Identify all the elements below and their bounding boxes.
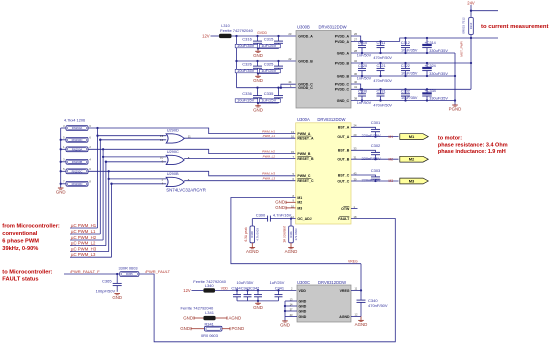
svg-text:Ferrite 742792040: Ferrite 742792040 [193,279,226,284]
svg-text:RN290B: RN290B [72,160,83,164]
svg-text:SN74LVC32ARGYR: SN74LVC32ARGYR [166,187,206,192]
wire BST M3 [351,175,376,177]
wire OC_ADJ [252,218,267,220]
svg-text:GND: GND [253,78,263,83]
svg-text:39kHz, 0-90%: 39kHz, 0-90% [2,246,38,252]
wire GVDD vertical bus [236,36,238,88]
svg-text:GND_A: GND_A [337,51,350,55]
wire GVDD rail C [237,84,297,88]
svg-text:1uF/25V: 1uF/25V [261,98,276,103]
svg-text:330uF/35V: 330uF/35V [429,97,448,101]
svg-text:PWM_H1: PWM_H1 [262,130,275,134]
ground U300C [282,320,288,322]
svg-text:PWM_H2: PWM_H2 [262,150,275,154]
wire U290C output to RESET_B [184,158,296,160]
wire PVDD_A pins join [351,36,361,42]
wire VREG net vertical [360,264,362,300]
capacitor C342 [257,289,259,291]
svg-text:U290B: U290B [167,171,179,176]
capacitor C343 [246,289,248,291]
svg-text:µC PWM_L2: µC PWM_L2 [71,240,96,245]
or-gate U290C SN74LVC32 [166,155,184,164]
svg-text:PWM_B: PWM_B [297,152,311,156]
svg-text:GND: GND [275,205,285,210]
svg-text:to Microcontroller:: to Microcontroller: [2,269,52,275]
wire M1 to VREG [231,198,361,264]
resistor R300 4.7k [250,226,255,243]
svg-text:/PWR_FAULT: /PWR_FAULT [145,269,170,274]
svg-text:220nF/25V: 220nF/25V [362,133,381,138]
svg-text:RN290A: RN290A [72,126,83,130]
svg-text:AGND: AGND [246,249,259,254]
svg-text:GND: GND [253,53,263,58]
capacitor C312 10uF/35V [404,37,406,39]
wire FAULT loop [139,219,395,342]
wire PWM_H3 to PWM_C [88,171,296,176]
svg-text:µC PWM_L3: µC PWM_L3 [71,252,96,257]
capacitor C320 1nF/50V [361,62,363,64]
svg-text:GND: GND [275,200,285,205]
svg-text:C365: C365 [102,278,112,283]
svg-text:38: 38 [354,96,358,100]
svg-text:28: 28 [354,49,358,53]
wire cap bottoms [258,48,279,50]
capacitor C315 1uF/25V [277,35,279,37]
svg-text:PGND: PGND [449,107,462,112]
svg-text:GVDD_C: GVDD_C [298,86,313,90]
svg-text:C302: C302 [371,143,381,148]
svg-text:BST_A: BST_A [338,126,350,130]
wire pullup common bus [60,128,62,188]
svg-text:phase inductance: 1.9 mH: phase inductance: 1.9 mH [438,149,506,155]
svg-text:µC PWM_H1: µC PWM_H1 [71,223,97,228]
wire bus µC PWM_L3 [111,184,113,257]
svg-text:BST_C: BST_C [338,173,350,177]
ground PGND [452,104,458,106]
svg-text:1uF/25V: 1uF/25V [261,43,276,48]
resistor RN290A pullup [61,148,66,150]
svg-text:470nF/50V: 470nF/50V [373,103,392,107]
ground port at M2 [286,201,296,203]
svg-text:RESET_C: RESET_C [297,179,314,183]
svg-text:AGND: AGND [285,249,298,254]
capacitor C300 4.7nF/16V [267,216,269,222]
svg-text:M2: M2 [389,157,394,161]
svg-text:GND_B: GND_B [337,74,350,78]
wire OUT to M2 [351,158,399,160]
capacitor C311 470nF/50V [379,40,381,42]
capacitor C341 1uF/25V [277,289,279,291]
svg-text:C332: C332 [401,90,410,94]
svg-text:GVDD_A: GVDD_A [298,34,313,38]
svg-text:4.7k 0603: 4.7k 0603 [255,228,259,241]
svg-text:23: 23 [288,32,292,36]
svg-text:PWM_H3: PWM_H3 [262,172,275,176]
capacitor C301 220nF/25V bootstrap [371,128,380,130]
wire to R301 [290,219,292,226]
svg-text:PVDD_B: PVDD_B [335,61,350,65]
wire U290D input 13 [98,135,167,137]
wire PWM_H2 to PWM_B [88,149,296,153]
wire 24V rail [400,38,498,42]
svg-text:M2: M2 [409,157,415,162]
wire OUT to M3 [351,180,399,182]
wire bus µC PWM_L2 [105,162,107,246]
svg-text:DRV8312DDW: DRV8312DDW [318,280,346,285]
svg-text:M3: M3 [389,179,394,183]
svg-text:M3: M3 [409,179,415,184]
capacitor C326 10uF/35V [256,60,258,62]
svg-text:R341: R341 [205,321,214,326]
resistor RN290C pullup [61,170,66,172]
svg-text:PVDD_C: PVDD_C [335,88,350,92]
svg-text:10uF/35V: 10uF/35V [237,43,255,48]
svg-text:470nF/50V: 470nF/50V [373,79,392,83]
svg-text:GVDD: GVDD [257,31,267,35]
ground [257,103,259,106]
svg-text:PWM_L2: PWM_L2 [263,155,276,159]
IC U300C DRV8312DDW ground section [297,285,351,322]
wire PWM_H1 to PWM_A [88,128,296,134]
svg-text:12V: 12V [202,33,210,38]
wire GVDD rail A [232,35,297,37]
svg-text:VREG: VREG [340,289,350,293]
ferrite bead L340 [203,288,215,292]
wire U290B output to RESET_C [184,180,296,182]
svg-text:GND: GND [183,315,193,320]
svg-text:330R 0603: 330R 0603 [119,266,138,271]
svg-text:GND: GND [299,304,307,308]
resistor R310 0R015 7512 shunt [469,18,474,35]
svg-text:RN290C: RN290C [72,169,83,173]
svg-text:26: 26 [354,32,358,36]
wire bus µC PWM_H3 [108,171,110,251]
svg-text:C303: C303 [371,168,381,173]
wire 12V to L340 [192,289,204,291]
svg-text:1nF/50V: 1nF/50V [357,77,372,81]
IC U300A DRV8312DDW control section [296,123,351,224]
svg-text:PWM_L3: PWM_L3 [263,177,276,181]
or-gate U290D SN74LVC32 [166,134,184,143]
resistor R301 27k [289,226,294,243]
capacitor C365 100pF/50V [116,274,118,283]
svg-text:C315: C315 [264,36,274,41]
wire BST M1 [351,127,376,129]
svg-text:U290C: U290C [167,149,179,154]
svg-text:GND: GND [180,326,190,331]
wire BST M2 [351,150,376,152]
svg-text:4.7kx4 1206: 4.7kx4 1206 [64,117,85,122]
svg-text:OUT_C: OUT_C [337,179,349,183]
resistor RN290B pullup [61,161,66,163]
svg-text:GND: GND [56,190,66,195]
wire bottom caps join [237,300,279,302]
svg-text:PWM_C: PWM_C [297,174,311,178]
motor output arrow M1 [400,134,429,140]
svg-text:470nF/50V: 470nF/50V [368,303,388,308]
wire GND_C rail [351,100,455,102]
svg-text:6.3A peak: 6.3A peak [244,227,248,242]
capacitor C303 220nF/25V bootstrap [371,176,380,178]
svg-text:RN290D: RN290D [72,182,83,186]
svg-text:470nF/50V: 470nF/50V [373,56,392,60]
wire U290B input 4 [112,183,167,185]
capacitor C340 470nF/50V [357,299,366,301]
svg-text:AGND: AGND [339,315,350,319]
svg-text:1uF/25V: 1uF/25V [261,68,276,73]
svg-text:VDD: VDD [299,289,307,293]
ground bottom caps [257,301,259,303]
ground [257,74,259,77]
capacitor C310 1nF/50V [361,40,363,42]
svg-text:GND: GND [253,107,263,112]
svg-text:PWM_L1: PWM_L1 [263,134,276,138]
svg-text:10uF/35V: 10uF/35V [237,98,255,103]
svg-text:R301: R301 [289,231,293,238]
svg-text:FAULT: FAULT [338,217,350,221]
svg-text:FAULT status: FAULT status [2,277,38,283]
svg-text:22: 22 [288,57,292,61]
svg-text:GVDD_B: GVDD_B [298,59,313,63]
svg-text:RN290A: RN290A [72,147,83,151]
svg-text:VDD: VDD [221,287,229,291]
wire 24V down [470,5,472,18]
svg-text:R310: R310 [469,22,473,29]
svg-text:VREG: VREG [348,259,358,263]
svg-text:OC_ADJ: OC_ADJ [297,217,311,221]
svg-text:GND_C: GND_C [337,99,350,103]
capacitor C322 10uF/35V [404,62,406,64]
resistor RN290A pullup [61,127,66,129]
capacitor C316 10uF/35V [256,35,258,37]
svg-text:C322: C322 [401,64,410,68]
svg-text:PWM_A: PWM_A [297,132,311,136]
svg-text:GND: GND [299,309,307,313]
svg-text:PVDD_A: PVDD_A [335,34,350,38]
svg-text:to motor:: to motor: [438,136,462,142]
node GVDD junction [235,35,237,37]
svg-text:10uF/35V: 10uF/35V [237,68,255,73]
svg-text:M2: M2 [297,201,302,205]
svg-text:M1: M1 [389,135,394,139]
capacitor C332 10uF/35V [404,88,406,90]
svg-text:GND: GND [299,299,307,303]
svg-text:U290D: U290D [167,128,179,133]
wire to R300 [251,219,253,226]
wire R310 to rail [470,35,472,39]
svg-text:RESET_A: RESET_A [297,137,314,141]
svg-text:24V: 24V [467,0,475,5]
svg-text:U300B: U300B [297,25,310,30]
svg-text:PVDD_C: PVDD_C [335,82,350,86]
wire GVDD rail B [237,60,297,62]
wire GVDD_C pin1 [281,87,296,89]
svg-text:32: 32 [354,59,358,63]
wire PWR_FAULT_F [64,273,120,275]
svg-text:C326: C326 [242,61,252,66]
svg-text:OTW: OTW [341,207,350,211]
svg-text:C344C343C342: C344C343C342 [231,285,259,290]
svg-text:4.7nF/16V: 4.7nF/16V [273,212,292,217]
svg-text:M1: M1 [409,134,415,139]
svg-text:to current measurement: to current measurement [481,24,548,30]
svg-text:OUT_A: OUT_A [337,135,349,139]
svg-text:Ferrite 742792040: Ferrite 742792040 [220,28,253,33]
ground AGND R300 [251,243,253,248]
svg-text:220nF/25V: 220nF/25V [362,178,381,183]
motor output arrow M2 [400,156,429,162]
wire PVDD_C pins join [351,84,361,89]
wire to current measurement tap [471,10,498,12]
svg-text:330uF/35V: 330uF/35V [429,72,448,76]
svg-text:AGND: AGND [355,322,368,327]
svg-text:AGND: AGND [229,315,242,320]
svg-text:U300A: U300A [297,117,310,122]
svg-text:GND: GND [253,305,263,310]
svg-text:C316: C316 [242,36,252,41]
svg-text:M3: M3 [297,206,302,210]
svg-text:+C324: +C324 [425,64,436,68]
svg-text:1nF/50V: 1nF/50V [357,101,372,105]
wire GND_B rail [351,75,455,77]
svg-text:+C334: +C334 [425,89,436,93]
capacitor C334 330uF/35V electrolytic [426,88,428,90]
svg-text:0R0 0603: 0R0 0603 [201,333,218,338]
svg-text:C311: C311 [377,41,386,45]
svg-text:U300C: U300C [297,280,310,285]
ground C365 [114,293,120,295]
svg-text:C310: C310 [358,41,367,45]
svg-text:PVDD_A: PVDD_A [335,40,350,44]
svg-text:1nF/50V: 1nF/50V [357,54,372,58]
capacitor C335 1uF/25V [277,87,279,89]
svg-text:C325: C325 [264,61,274,66]
svg-text:/PWR_FAULT_F: /PWR_FAULT_F [70,269,100,274]
svg-text:12V: 12V [183,288,191,293]
capacitor C324 330uF/35V electrolytic [426,62,428,64]
resistor R365 330R 0603 [120,272,139,277]
svg-text:µC PWM_H3: µC PWM_H3 [71,246,97,251]
svg-text:10uF/35V: 10uF/35V [401,96,418,100]
svg-text:L341: L341 [205,310,215,315]
resistor RN290D pullup [61,183,66,185]
wire PVDD_B rail [351,62,471,64]
capacitor C331 470nF/50V [379,88,381,90]
capacitor C321 470nF/50V [379,62,381,64]
svg-text:330uF/35V: 330uF/35V [429,49,448,53]
wire VDD rail [215,289,296,291]
svg-text:OUT_B: OUT_B [337,158,349,162]
svg-text:30: 30 [354,72,358,76]
svg-text:BST_B: BST_B [338,149,350,153]
wire GND_A rail [351,52,455,54]
capacitor C314 330uF/35V electrolytic [426,37,428,39]
svg-text:10uF/35V: 10uF/35V [401,48,418,52]
wire PGND bus [454,53,456,105]
wire 24V bus [470,38,472,89]
capacitor C302 220nF/25V bootstrap [371,151,380,153]
motor output arrow M3 [400,178,429,184]
ground [257,49,259,52]
svg-text:12: 12 [160,138,164,142]
capacitor C330 1nF/50V [361,88,363,90]
svg-text:0R015 7512: 0R015 7512 [462,17,466,34]
ground AGND C340 [360,316,362,320]
svg-text:phase resistance: 3.4 Ohm: phase resistance: 3.4 Ohm [438,142,508,148]
wire OUT to M1 [351,136,399,138]
svg-text:+C314: +C314 [425,41,436,45]
ferrite bead L310 [219,34,232,38]
svg-text:100pF/50V: 100pF/50V [96,289,116,294]
svg-text:MOT_PWR: MOT_PWR [459,41,463,57]
pin stub OTW [351,208,358,210]
wire U290C input 10 [103,156,166,158]
svg-text:from Microcontroller:: from Microcontroller: [2,224,60,230]
svg-text:GND: GND [299,315,307,319]
svg-text:DRV8312DDW: DRV8312DDW [319,25,347,30]
ground pullup bus [58,187,64,189]
wire bus µC PWM_H1 [97,128,99,228]
wire bus µC PWM_L1 [99,140,101,234]
svg-text:27k 0603: 27k 0603 [294,228,298,240]
wire cap bottoms [258,102,279,104]
svg-text:GND: GND [280,323,290,328]
or-gate U290B SN74LVC32 [166,177,184,186]
svg-text:R365: R365 [126,272,133,276]
resistor RN290D pullup [61,139,66,141]
svg-text:RESET_B: RESET_B [297,157,314,161]
svg-text:C336: C336 [242,91,252,96]
svg-text:C301: C301 [371,120,381,125]
svg-text:41: 41 [354,85,358,89]
capacitor C344 [236,289,238,291]
svg-text:C330: C330 [358,90,367,94]
svg-text:C320: C320 [358,64,367,68]
svg-text:M1: M1 [297,196,302,200]
ground port at M3 [286,207,296,209]
wire U290D output to RESET_A [184,137,296,139]
svg-text:C335: C335 [264,91,274,96]
capacitor C325 1uF/25V [277,60,279,62]
svg-text:6 phase PWM: 6 phase PWM [2,238,39,244]
svg-text:1A constant: 1A constant [283,226,287,243]
svg-text:C321: C321 [377,64,386,68]
IC U300B DRV8312DDW power section [296,31,351,109]
svg-text:GND: GND [112,295,122,300]
wire bus µC PWM_H2 [102,149,104,240]
svg-text:C300: C300 [256,212,266,217]
wire U290D input 12 [100,139,166,141]
svg-text:10uF/35V: 10uF/35V [401,71,418,75]
svg-text:DRV8312DDW: DRV8312DDW [317,117,345,122]
svg-text:220nF/25V: 220nF/25V [362,156,381,161]
wire 12V to L310 [211,35,220,37]
svg-text:C331: C331 [377,90,386,94]
svg-text:RN290D: RN290D [72,138,83,142]
ground AGND R301 [290,243,292,248]
svg-text:µC PWM_H2: µC PWM_H2 [71,235,97,240]
wire cap bottoms [258,73,279,75]
wire GND bus U300C [284,301,286,321]
svg-text:conventional: conventional [2,231,37,237]
svg-text:C341: C341 [275,285,284,290]
svg-text:µC PWM_L1: µC PWM_L1 [71,229,96,234]
wire PVDD_A rail [351,41,400,43]
wire U290B input 5 [109,178,167,180]
capacitor C336 10uF/35V [256,87,258,89]
wire PVDD_C rail [351,88,471,90]
wire U290C input 9 [106,161,166,163]
